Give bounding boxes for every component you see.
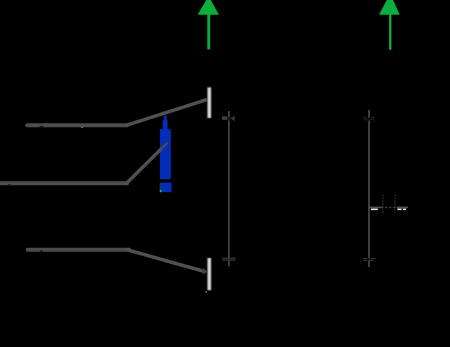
voltage rail VDD1 (green up arrow) [198,0,219,49]
wire tip over selected wire [161,143,167,149]
MOSFET Q2 gate plate [207,258,211,290]
right vertical wire (rail VDD2 branch) [368,110,370,267]
Q1 source arrow marks [222,116,235,121]
wire notch [40,250,43,252]
stray bright pixel on wire [81,127,82,128]
Q1/Q2 channel wire (left vertical) [228,111,230,267]
wire to selected node, diagonal run [126,149,161,184]
capacitor C2 plates (in right vertical wire) [363,258,376,262]
MOSFET Q1 gate plate [207,87,211,118]
node dot below Q2 gate (white) [206,291,207,292]
wire C end blob at Q2 gate [202,269,204,274]
voltage rail VDD2 (green up arrow) [379,0,400,50]
wire to selected node (input B), horizontal run [0,181,127,185]
capacitor C3 plate 1 (dotted) [382,195,384,214]
wire to Q1 gate (input A), horizontal run [27,123,127,127]
selected wire (blue highlight) [160,116,172,193]
wire to Q2 gate, diagonal run [128,250,205,272]
capacitor C3 plate 2 (dotted) [394,195,396,214]
capacitor C3 (horizontal, dotted plates) lead wires [369,206,408,208]
wire to Q2 gate (input C), horizontal run [28,248,129,252]
terminal dot (green) on selected wire [160,190,162,192]
wire notch [40,126,44,128]
wire to Q1 gate, diagonal run [126,100,205,125]
Q3 marks (faint) on right wire [363,117,375,122]
capacitor C1 plates (in left vertical wire) [222,258,235,261]
wire notch [8,184,11,185]
current dots (white) on C3 leads [371,209,406,211]
